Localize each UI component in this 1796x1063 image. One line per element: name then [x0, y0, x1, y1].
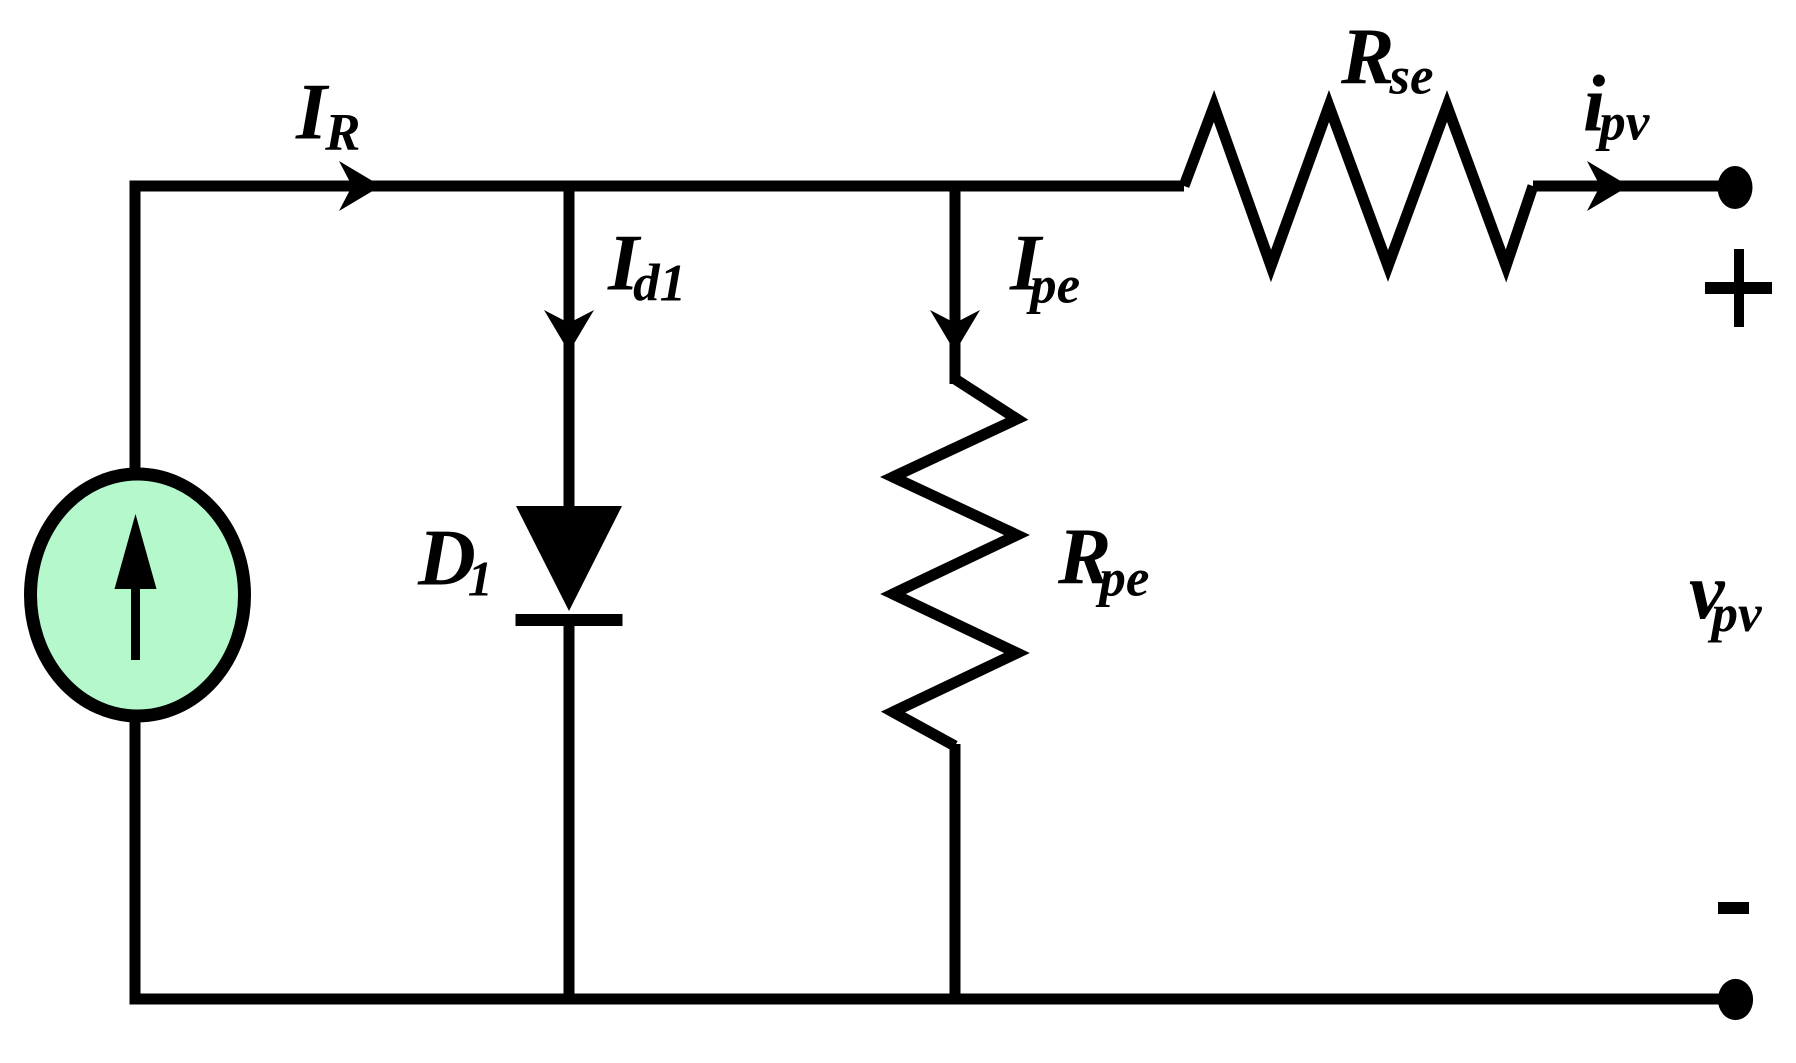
current source I_R circle: [31, 474, 245, 716]
current source arrow head: [115, 514, 157, 589]
minus sign: [1718, 902, 1749, 914]
wire R_pe branch lower: [950, 744, 961, 999]
positive terminal node dot: [1718, 166, 1753, 209]
wire left vertical lower (source to bottom rail): [130, 719, 141, 1005]
current source arrow shaft: [131, 583, 140, 660]
I_R current arrow on top wire: [339, 161, 381, 211]
I_d1 current arrow: [544, 310, 594, 352]
diode D1 cathode bar: [516, 614, 623, 626]
resistor R_se zigzag: [1184, 106, 1533, 266]
negative terminal node dot: [1718, 979, 1753, 1020]
wire diode branch upper: [564, 181, 575, 510]
wire bottom rail: [130, 994, 1736, 1005]
wire R_pe branch upper: [950, 181, 961, 384]
resistor R_pe zigzag: [893, 379, 1017, 746]
i_pv current arrow: [1587, 161, 1629, 211]
wire diode branch lower: [564, 620, 575, 999]
wire left vertical (source to top rail): [130, 181, 141, 473]
I_pe current arrow: [930, 310, 980, 352]
diode D1 triangle: [516, 506, 622, 611]
wire top right (R_se to positive terminal): [1533, 181, 1735, 192]
plus sign: [1705, 282, 1772, 294]
wire top horizontal (left section, node A to R_se): [130, 181, 1185, 192]
